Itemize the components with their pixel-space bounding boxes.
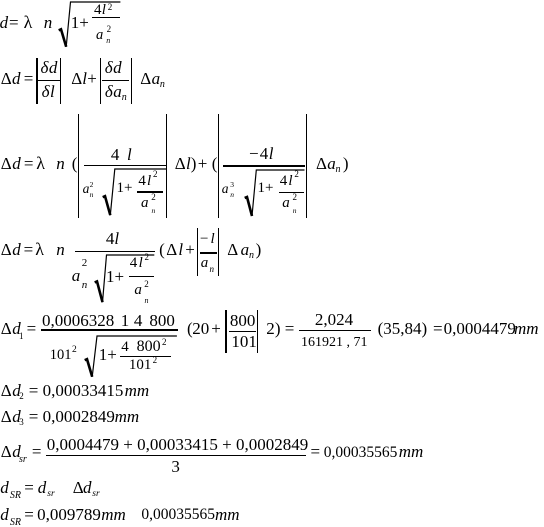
equation (0, 506, 9, 523)
equation (0, 14, 8, 31)
equation (1, 443, 12, 460)
equation (0, 479, 9, 496)
equation (1, 70, 12, 87)
equation (1, 382, 12, 399)
equation (1, 320, 12, 337)
equation (1, 155, 12, 172)
equation (1, 241, 12, 258)
equation (1, 408, 12, 425)
